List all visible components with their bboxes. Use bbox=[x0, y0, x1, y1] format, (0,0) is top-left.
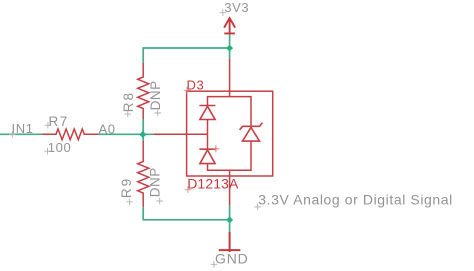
resistor R7 bbox=[42, 129, 98, 140]
net label A0 bbox=[99, 122, 116, 137]
diode upper-left of D3 bbox=[199, 106, 215, 120]
net label IN1 bbox=[12, 121, 34, 136]
value label D1213A bbox=[187, 176, 239, 192]
anchor cross R9 bbox=[126, 199, 133, 206]
svg-text:A0: A0 bbox=[99, 122, 116, 137]
label D3 bbox=[187, 78, 205, 93]
anchor cross IN1 bbox=[9, 131, 16, 138]
anchor cross origin D3 bbox=[212, 145, 219, 152]
junction node A0 center bbox=[139, 131, 146, 138]
anchor cross R8 bbox=[125, 111, 132, 118]
wire 3V3 vertical stub bbox=[229, 34, 231, 59]
inner left wire between diodes bbox=[207, 120, 209, 150]
anchor cross GND bbox=[211, 261, 218, 268]
anchor cross R7 bbox=[45, 122, 52, 129]
label R9 (rotated) bbox=[119, 177, 134, 198]
junction node GND bbox=[226, 216, 233, 223]
svg-text:DNP: DNP bbox=[148, 167, 163, 197]
svg-text:DNP: DNP bbox=[148, 80, 163, 110]
svg-text:R7: R7 bbox=[49, 114, 69, 129]
pin wire bottom of D3 bbox=[229, 170, 231, 205]
svg-text:D1213A: D1213A bbox=[187, 176, 239, 192]
wire net IN1 horizontal left segment bbox=[0, 133, 42, 135]
label R8 (rotated) bbox=[121, 91, 136, 112]
value label DNP of R8 (rotated) bbox=[148, 80, 163, 110]
wire vertical center segment bbox=[142, 119, 144, 141]
diode lower-left of D3 bbox=[199, 149, 215, 163]
pin wire top of D3 bbox=[229, 59, 231, 97]
svg-text:3V3: 3V3 bbox=[224, 0, 249, 15]
supply symbol 3V3 arrow bbox=[224, 18, 235, 34]
value label DNP of R9 (rotated) bbox=[148, 167, 163, 197]
supply label 3V3 bbox=[224, 0, 249, 15]
anchor cross DNP R8 bbox=[154, 110, 161, 117]
anchor cross DNP R9 bbox=[156, 198, 163, 205]
label R7 bbox=[49, 114, 69, 129]
anchor cross 3V3 bbox=[220, 9, 227, 16]
svg-text:IN1: IN1 bbox=[12, 121, 34, 136]
anchor cross 100 bbox=[44, 148, 51, 155]
anchor cross D3 label bbox=[184, 87, 191, 94]
wire net A0 from R7 to junction bbox=[98, 133, 153, 135]
inner loop bottom wire bbox=[208, 141, 252, 170]
svg-text:GND: GND bbox=[215, 251, 249, 267]
value label 100 bbox=[48, 140, 72, 155]
anchor cross D1213A label bbox=[185, 186, 192, 193]
ground symbol GND bbox=[219, 232, 241, 252]
pin wire left of D3 bbox=[153, 133, 207, 135]
zener diode right of D3 bbox=[240, 123, 263, 142]
inner loop top wire bbox=[208, 97, 252, 127]
wire from R8 top to 3V3 junction bbox=[143, 48, 229, 63]
svg-text:R8: R8 bbox=[121, 91, 136, 112]
svg-text:R9: R9 bbox=[119, 177, 134, 198]
wire GND vertical stub bbox=[229, 206, 231, 232]
wire from R9 bottom to GND junction bbox=[143, 207, 229, 220]
svg-text:100: 100 bbox=[48, 140, 72, 155]
anchor cross comment text bbox=[254, 204, 261, 211]
diode array U outline box D3 bbox=[187, 91, 273, 176]
resistor R9 bbox=[138, 141, 149, 207]
ground label GND bbox=[215, 251, 249, 267]
resistor R8 bbox=[138, 63, 149, 119]
junction node 3V3 bbox=[226, 45, 233, 52]
svg-text:3.3V Analog or Digital Signal: 3.3V Analog or Digital Signal bbox=[258, 192, 453, 208]
comment text 3.3V Analog or Digital Signal bbox=[258, 192, 453, 208]
